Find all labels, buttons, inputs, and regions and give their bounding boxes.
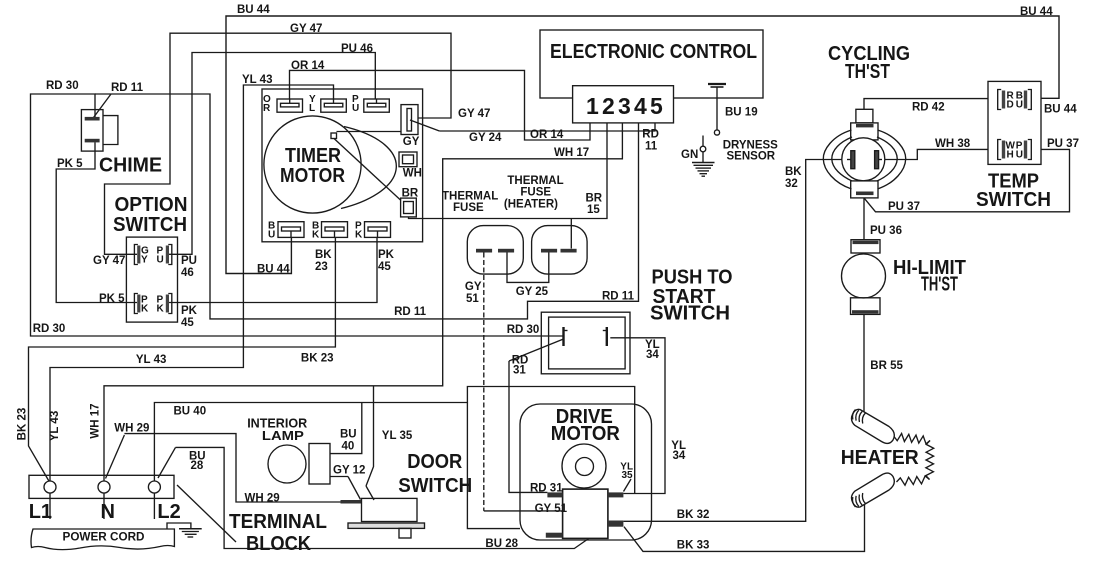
svg-text:OR 14: OR 14 [291,60,325,72]
svg-text:3: 3 [618,93,631,119]
svg-text:H: H [1007,150,1014,161]
temp switch contact pair RD/BU [998,90,1032,110]
svg-text:GY 47: GY 47 [458,108,490,120]
wire YL34: push-to-start switch to drive motor [610,338,665,494]
dryness sensor electrode circles [700,130,719,152]
svg-text:TERMINAL: TERMINAL [229,511,327,533]
svg-text:OPTION: OPTION [115,194,188,216]
dryness sensor plate [708,84,726,87]
svg-text:D: D [1007,100,1014,111]
svg-text:U: U [1016,100,1023,111]
svg-text:BK: BK [785,166,802,178]
svg-text:WH 38: WH 38 [935,138,971,150]
svg-text:GY 47: GY 47 [93,255,125,267]
interior lamp bulb [268,444,330,485]
svg-text:46: 46 [181,267,194,279]
svg-text:PK 5: PK 5 [99,293,125,305]
wire GN: lower electrode to ground [702,136,704,163]
svg-text:GY 12: GY 12 [333,465,365,477]
svg-text:HEATER: HEATER [841,447,920,469]
svg-text:RD 11: RD 11 [111,82,144,94]
svg-text:ELECTRONIC CONTROL: ELECTRONIC CONTROL [550,41,757,63]
svg-text:U: U [157,255,164,266]
cycling thermostat top terminal [851,109,878,140]
electronic control pins box 1 2 3 4 5 [573,86,674,123]
option switch contact pair PK/PK [134,294,171,314]
svg-text:BK 23: BK 23 [301,353,334,365]
svg-text:POWER CORD: POWER CORD [63,532,145,544]
svg-text:K: K [141,304,149,315]
svg-text:PK 5: PK 5 [57,158,83,170]
svg-text:31: 31 [513,365,526,377]
wire RD11: chime diagonal, vertical and long runs to control pin 4 [94,94,639,319]
svg-text:U: U [1016,150,1023,161]
svg-text:OR 14: OR 14 [530,129,564,141]
cycling thermostat body circle [842,138,885,181]
wire GY25: U-link between the two thermal fuses [507,253,549,283]
wire BK23: terminal block L1 to timer BK terminal [29,237,336,481]
svg-text:THERMAL: THERMAL [507,175,563,187]
cycling thermostat contacts inside [847,151,882,169]
svg-text:1: 1 [586,93,599,119]
svg-text:51: 51 [466,293,479,305]
svg-text:11: 11 [645,141,658,153]
wire BU28: terminal block L2 to drive motor [158,447,589,548]
svg-text:40: 40 [342,441,355,453]
svg-text:L: L [309,103,315,114]
svg-text:Y: Y [141,255,148,266]
wire BR15: timer BR terminal to control pin 2 [409,123,608,219]
timer motor circle [264,116,361,213]
svg-text:RD 11: RD 11 [394,306,427,318]
wire BK23 branch down to motor housing [467,403,520,529]
heater element zigzag [894,434,934,486]
svg-text:CHIME: CHIME [99,155,162,177]
wire YL43: timer Y terminal to terminal block L1 [50,85,334,481]
wire WH17: control pin 3 to terminal block N [104,123,622,481]
hi-limit thermostat body circle [842,254,886,298]
wire GY47: option switch to timer GY terminal [105,33,452,254]
svg-text:U: U [268,230,275,241]
wire terminal block stubs under L1 N L2 [50,493,154,519]
timer terminal BR (right side) [401,198,417,217]
svg-text:RD 30: RD 30 [33,323,66,335]
svg-text:K: K [157,304,165,315]
cycling thermostat bimetal wings [823,130,905,189]
svg-text:BU 44: BU 44 [257,264,290,276]
svg-text:BU 44: BU 44 [237,4,270,16]
wire PK45: option switch to timer PK terminal [169,237,377,302]
svg-text:N: N [101,501,115,523]
wire RD31: push-to-start contact to drive motor [509,339,564,492]
svg-text:GY 51: GY 51 [535,503,568,515]
push-to-start switch box [541,312,630,374]
wire GY51: thermal fuse to drive motor (dashed) [484,253,563,511]
door switch body [348,498,425,538]
svg-text:BK 23: BK 23 [17,408,29,441]
svg-text:PU 37: PU 37 [1047,138,1079,150]
timer terminal GY (right side) [401,105,418,135]
svg-text:2: 2 [602,93,615,119]
svg-text:34: 34 [646,349,659,361]
wire RD30: chime run and long run to push-to-start switch [31,94,564,336]
wire BR15 branch to thermal fuse (heater) contact [570,219,572,249]
svg-text:L2: L2 [157,501,180,523]
heater bottom insulator [851,473,894,507]
timer cam node and follower [331,127,401,209]
thermal fuse body (left) [467,226,523,275]
power cord box [31,529,174,550]
svg-text:BU 44: BU 44 [1044,104,1077,116]
svg-text:45: 45 [378,261,391,273]
wire PU37: temp switch to cycling thermostat bottom [864,149,1070,211]
svg-text:BK 33: BK 33 [677,540,710,552]
svg-text:TIMER: TIMER [285,145,341,167]
svg-text:U: U [352,103,359,114]
svg-text:PU 37: PU 37 [888,201,920,213]
svg-text:PK: PK [181,305,198,317]
svg-text:MOTOR: MOTOR [280,165,345,187]
svg-text:K: K [355,230,363,241]
wire BK33: heater to drive motor [624,504,865,551]
svg-text:SWITCH: SWITCH [976,189,1051,211]
svg-text:LAMP: LAMP [262,428,304,443]
wire RD42: cycling thermostat to temp switch [864,99,988,110]
svg-text:PU 46: PU 46 [341,43,373,55]
wire PK5: chime to option switch [56,142,137,302]
wire OR14: timer OR terminal to control pin 1 [290,70,591,140]
svg-text:RD 42: RD 42 [912,102,945,114]
svg-text:35: 35 [622,470,634,481]
drive motor housing [520,404,652,540]
svg-text:FUSE: FUSE [453,202,484,214]
svg-text:GY 25: GY 25 [516,286,549,298]
option switch S1 box [126,237,177,322]
wire PU46: option switch to timer PU terminal [169,53,375,255]
svg-text:RD 30: RD 30 [507,324,540,336]
svg-text:K: K [312,230,320,241]
svg-text:YL 35: YL 35 [382,430,413,442]
wire BU19: electronic control to dryness sensor electrode [716,87,718,130]
svg-text:RD: RD [642,129,659,141]
svg-text:R: R [263,103,271,114]
electronic control box [540,30,763,98]
push-to-start contacts [564,327,607,346]
svg-text:BU 44: BU 44 [1020,6,1053,18]
drive motor rotor [562,444,606,488]
option switch contact pair GY/PU [134,245,171,265]
svg-text:GN: GN [681,149,698,161]
svg-text:GY 47: GY 47 [290,23,322,35]
cycling thermostat bottom terminal [851,181,878,198]
svg-text:5: 5 [650,93,663,119]
svg-text:BU: BU [340,429,357,441]
svg-text:(HEATER): (HEATER) [504,199,558,211]
svg-text:GY: GY [465,281,482,293]
svg-text:RD 31: RD 31 [530,482,563,494]
svg-text:L1: L1 [29,501,52,523]
timer terminal WH (right side) [399,152,417,167]
svg-text:BU 40: BU 40 [174,406,207,418]
svg-text:RD 30: RD 30 [46,80,79,92]
svg-text:SWITCH: SWITCH [650,303,730,325]
terminal block box [29,475,174,498]
svg-text:45: 45 [181,317,194,329]
svg-text:BR: BR [586,193,603,205]
svg-text:PU: PU [181,255,197,267]
svg-text:BU 28: BU 28 [485,538,518,550]
svg-text:GY 24: GY 24 [469,132,502,144]
svg-text:BK 32: BK 32 [677,509,710,521]
svg-text:YL 43: YL 43 [49,411,61,441]
timer terminal BK [322,222,348,238]
wire GY12: interior lamp to door switch lever [330,476,348,478]
ground symbol GN [692,163,715,177]
svg-text:PU 36: PU 36 [870,225,902,237]
power cord earth ground [167,523,202,537]
svg-text:WH 29: WH 29 [245,492,280,504]
svg-text:32: 32 [785,178,798,190]
svg-text:BLOCK: BLOCK [246,533,312,555]
svg-text:15: 15 [587,204,600,216]
svg-text:BR 55: BR 55 [870,360,903,372]
svg-text:WH 29: WH 29 [114,423,149,435]
svg-text:WH: WH [403,168,422,180]
svg-text:FUSE: FUSE [520,187,551,199]
svg-text:SWITCH: SWITCH [113,214,187,236]
wire BU44 right vertical handled in BU44. wire WH38: cycling thermostat to temp switch [878,149,989,159]
svg-text:YL 43: YL 43 [242,74,272,86]
terminal block pointer line [177,485,236,542]
hi-limit thermostat bottom terminal [851,298,881,315]
chime C1 body [81,110,118,152]
svg-text:SWITCH: SWITCH [398,475,472,497]
timer box [262,89,423,242]
svg-text:BK: BK [315,249,332,261]
svg-text:MOTOR: MOTOR [551,423,621,445]
wire BK32: cycling thermostat to drive motor [623,160,852,522]
timer terminal PU [364,99,390,112]
svg-text:DOOR: DOOR [407,451,463,473]
svg-text:YL 43: YL 43 [136,354,166,366]
timer terminal BU [278,222,304,238]
timer terminal OR [277,99,303,112]
wire BR55: hi-limit thermostat to heater [863,314,865,413]
wire BU44 label jog at timer bottom (none) / wire GY24: timer GY bar to control pin 5 [410,120,655,131]
svg-text:28: 28 [191,460,204,472]
timer terminal YL [321,99,347,112]
timer terminal PK [365,222,391,238]
svg-text:34: 34 [673,450,686,462]
wire BU40: terminal block L2 to lamp and motor [154,387,634,494]
wire YL35: door switch lever to neutral run [366,386,374,486]
svg-text:GY: GY [403,136,420,148]
svg-text:RD 11: RD 11 [602,291,635,303]
heater top insulator [851,409,894,443]
svg-text:THERMAL: THERMAL [442,190,498,202]
svg-text:23: 23 [315,261,328,273]
wire BU44 top run: timer BU terminal to temp switch BU contact [226,16,1059,274]
thermal fuse heater body (right) [532,226,588,275]
wire PU36: cycling thermostat to hi-limit thermostat [863,198,865,240]
wire YL35 pointer at motor tab [624,479,632,492]
temp switch box [988,81,1041,164]
svg-text:SENSOR: SENSOR [727,151,776,163]
temp switch contact pair WH/PU [998,140,1032,160]
svg-text:WH 17: WH 17 [554,147,589,159]
svg-text:WH 17: WH 17 [90,403,102,438]
svg-text:4: 4 [634,93,647,119]
drive motor terminal block [546,489,624,538]
wire WH29: terminal block N to door switch contact [106,434,342,502]
door switch lever contacts [341,477,375,504]
svg-text:TH'ST: TH'ST [921,274,958,296]
svg-text:BU 19: BU 19 [725,107,758,119]
svg-text:TH'ST: TH'ST [845,61,890,83]
svg-text:PK: PK [378,249,395,261]
svg-text:BR: BR [402,188,419,200]
hi-limit thermostat top terminal [851,240,880,253]
